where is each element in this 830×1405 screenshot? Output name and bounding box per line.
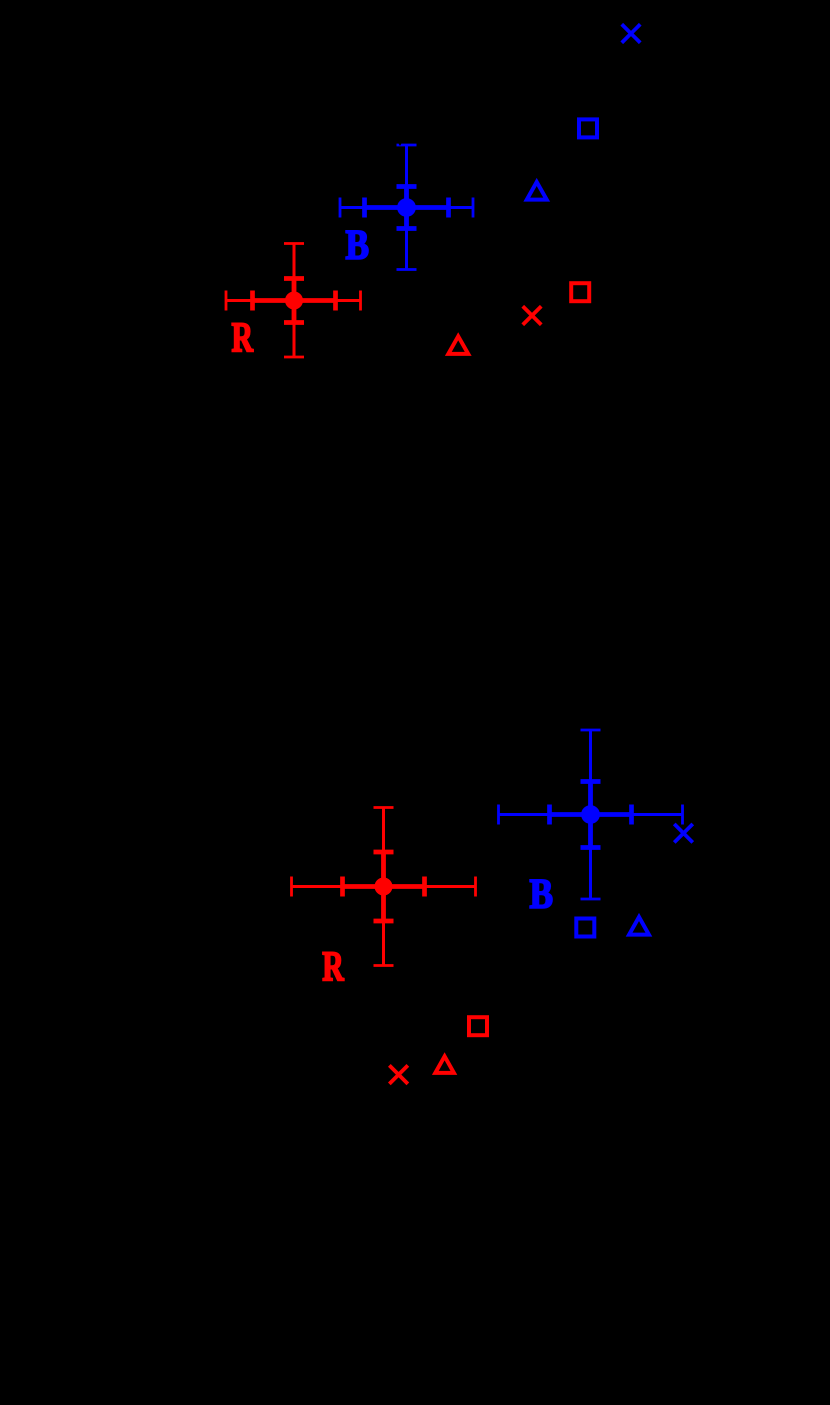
svg-text:R: R xyxy=(232,316,254,362)
svg-text:B: B xyxy=(346,223,370,269)
svg-text:B: B xyxy=(530,872,554,918)
svg-text:R: R xyxy=(322,945,344,991)
